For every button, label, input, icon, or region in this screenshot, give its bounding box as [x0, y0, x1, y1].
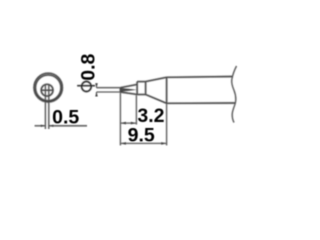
svg-text:0.5: 0.5 — [52, 106, 79, 128]
svg-text:9.5: 9.5 — [128, 124, 155, 146]
svg-text:0.8: 0.8 — [77, 53, 99, 80]
